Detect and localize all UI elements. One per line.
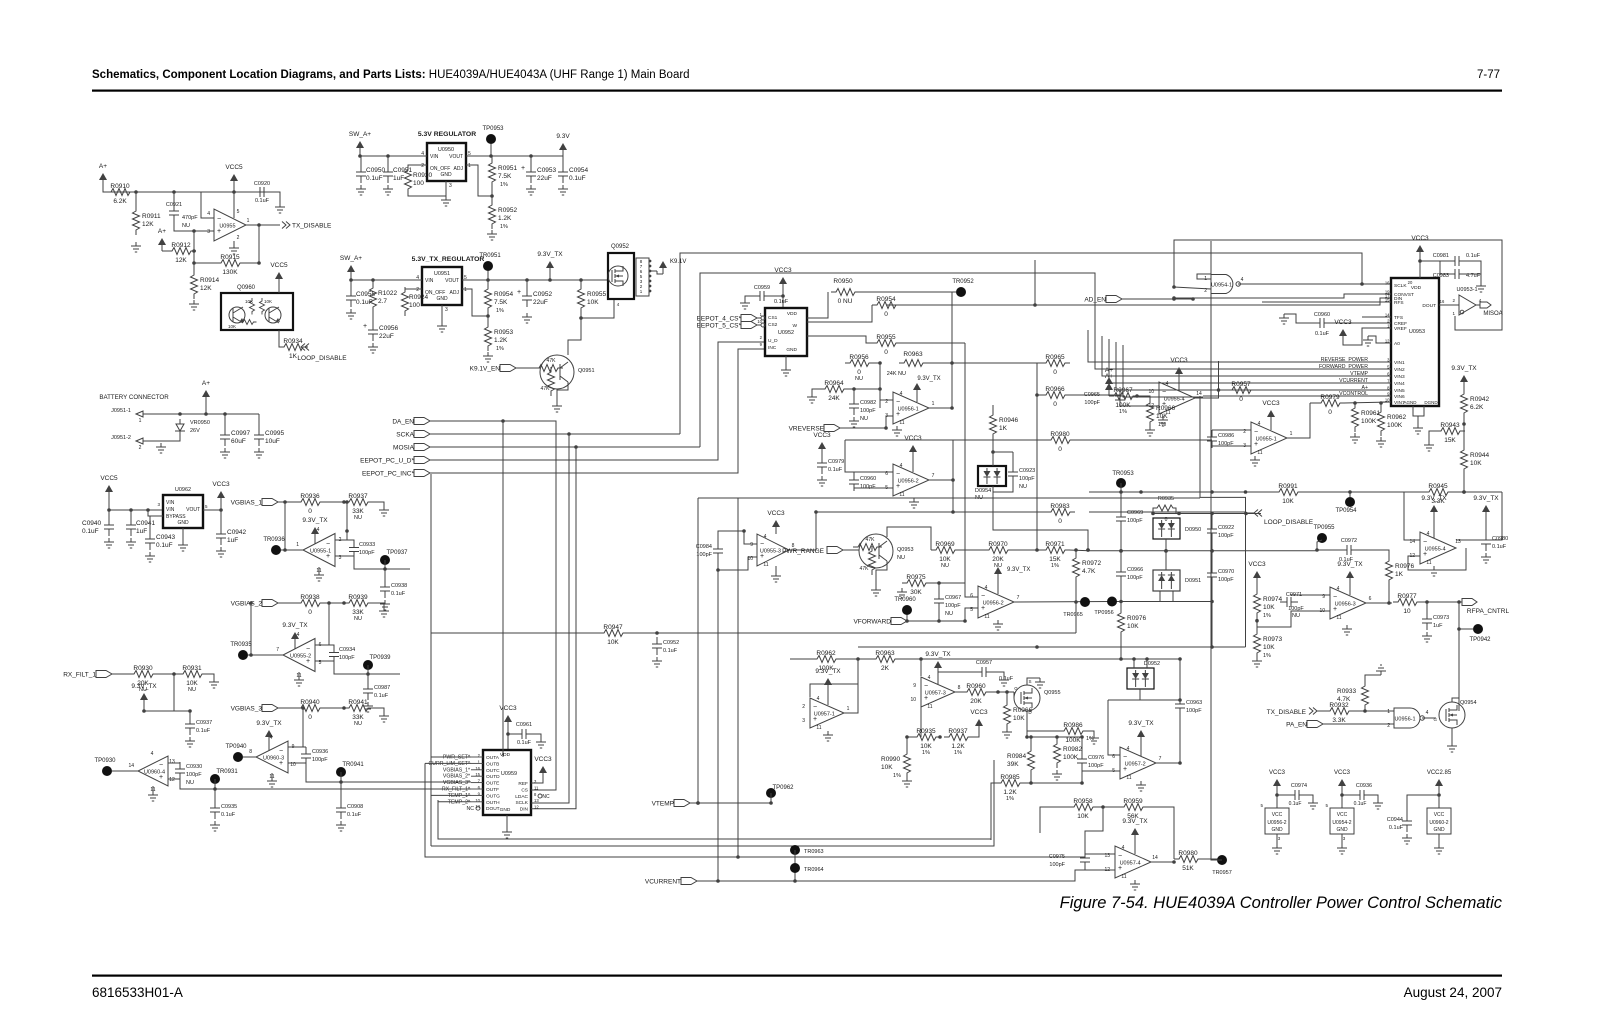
svg-text:4: 4 bbox=[151, 751, 154, 757]
wire bbox=[1089, 511, 1246, 513]
svg-text:5.3V REGULATOR: 5.3V REGULATOR bbox=[418, 131, 476, 138]
svg-text:TP0940: TP0940 bbox=[225, 744, 247, 750]
svg-text:7: 7 bbox=[1159, 756, 1162, 762]
wire r0912 bbox=[194, 250, 195, 252]
node bbox=[1363, 709, 1367, 713]
svg-text:R0937: R0937 bbox=[948, 728, 968, 735]
resistor R0975 bbox=[902, 580, 931, 587]
svg-text:1: 1 bbox=[932, 401, 935, 407]
wire plus in U0955-3 bbox=[718, 557, 757, 570]
svg-text:C0982: C0982 bbox=[860, 400, 876, 406]
power 9.3V_TX right bbox=[1463, 382, 1465, 388]
wire bracket 498 bbox=[698, 497, 1200, 499]
wire mesh r0963 to node bbox=[927, 362, 952, 364]
ground bbox=[1337, 844, 1347, 854]
svg-text:1%: 1% bbox=[954, 750, 962, 756]
svg-text:100K: 100K bbox=[1063, 754, 1079, 761]
svg-text:30K: 30K bbox=[910, 589, 922, 596]
wire bottom row 601 bbox=[1112, 601, 1212, 603]
wire cap vg2 bbox=[329, 644, 334, 647]
svg-text:C0979: C0979 bbox=[828, 459, 844, 465]
ground bbox=[745, 296, 753, 299]
wire tr0957 bbox=[1211, 241, 1222, 860]
svg-text:100pF: 100pF bbox=[1218, 577, 1234, 583]
ground bbox=[372, 603, 384, 607]
svg-text:DA_EN: DA_EN bbox=[392, 419, 414, 426]
ground bbox=[178, 541, 188, 551]
svg-text:TR0951: TR0951 bbox=[479, 253, 501, 259]
ground bbox=[1363, 336, 1373, 346]
svg-text:R0930: R0930 bbox=[133, 665, 153, 672]
capacitor C0986 bbox=[1207, 430, 1217, 448]
resistor R1022 bbox=[370, 283, 377, 312]
svg-text:U0959: U0959 bbox=[501, 771, 517, 777]
power 9.3V_TX u0955-4b bbox=[1433, 512, 1435, 518]
svg-text:SW_A+: SW_A+ bbox=[349, 131, 371, 138]
resistor R0945 bbox=[1424, 489, 1453, 496]
capacitor C0982 bbox=[849, 397, 859, 415]
svg-text:C0970: C0970 bbox=[1218, 569, 1234, 575]
svg-text:NU: NU bbox=[186, 780, 194, 786]
svg-text:VREF: VREF bbox=[1394, 326, 1407, 332]
wire bbox=[143, 440, 161, 442]
svg-text:NU: NU bbox=[354, 616, 362, 622]
resistor R0911 bbox=[133, 206, 140, 235]
wire vcurrent col bbox=[717, 570, 719, 881]
svg-text:9.3V_TX: 9.3V_TX bbox=[1421, 495, 1447, 502]
svg-text:10K: 10K bbox=[1282, 498, 1294, 505]
svg-text:12K: 12K bbox=[142, 221, 154, 228]
svg-text:R0958: R0958 bbox=[1073, 798, 1093, 805]
svg-text:R0982: R0982 bbox=[1063, 746, 1083, 753]
svg-text:100pF: 100pF bbox=[1019, 476, 1035, 482]
port VGBIAS_2 bbox=[262, 600, 278, 607]
svg-text:C0908: C0908 bbox=[347, 804, 363, 810]
bus MOSIA branch bbox=[531, 447, 576, 809]
svg-text:GND: GND bbox=[1271, 827, 1283, 833]
svg-text:12K: 12K bbox=[175, 257, 187, 264]
wire vtemp vertical bbox=[697, 498, 699, 803]
resistor R0946 bbox=[990, 410, 997, 439]
svg-text:VCC3: VCC3 bbox=[1248, 561, 1266, 568]
svg-text:1K: 1K bbox=[289, 353, 298, 360]
test point TP0942 bbox=[1473, 624, 1483, 634]
wire net MOSIA down bbox=[700, 273, 1095, 447]
svg-text:1.2K: 1.2K bbox=[1003, 789, 1017, 796]
svg-text:4: 4 bbox=[1166, 381, 1169, 387]
svg-text:VCC3: VCC3 bbox=[1334, 770, 1351, 776]
wire bbox=[1120, 389, 1159, 391]
svg-text:D0950: D0950 bbox=[1185, 527, 1201, 533]
port SCKA bbox=[414, 431, 430, 438]
ground bbox=[1481, 553, 1491, 563]
svg-text:11: 11 bbox=[927, 704, 932, 710]
svg-text:R0950: R0950 bbox=[833, 278, 853, 285]
resistor R0914 bbox=[191, 270, 198, 299]
capacitor C0951 bbox=[383, 165, 393, 183]
resistor R0957 bbox=[1227, 387, 1256, 394]
svg-text:1uF: 1uF bbox=[393, 175, 404, 182]
resistor R0937c bbox=[944, 734, 973, 741]
wire DIN row bbox=[886, 304, 1035, 306]
wire long 839 bbox=[438, 800, 991, 839]
wire bbox=[1069, 549, 1089, 552]
wire vforward bbox=[907, 620, 965, 622]
ground bbox=[999, 676, 1009, 686]
svg-text:0.1uF: 0.1uF bbox=[221, 812, 236, 818]
svg-text:TR0952: TR0952 bbox=[952, 279, 974, 285]
svg-text:RX_FILT_1: RX_FILT_1 bbox=[63, 672, 96, 679]
svg-text:VIN3: VIN3 bbox=[1394, 374, 1405, 380]
power 9.3V_TX c0980 bbox=[1485, 512, 1487, 518]
bus SCKA branch bbox=[531, 434, 569, 803]
power 9.3V_TX u0957-4 bbox=[1134, 835, 1136, 841]
svg-text:D0951: D0951 bbox=[1185, 578, 1201, 584]
svg-text:VCC3: VCC3 bbox=[499, 705, 517, 712]
wire u0955-1b bbox=[1212, 429, 1251, 431]
svg-text:C0936: C0936 bbox=[1356, 783, 1372, 789]
resistor R0964 bbox=[820, 386, 849, 393]
svg-text:C0943: C0943 bbox=[156, 534, 176, 541]
svg-text:11: 11 bbox=[899, 492, 904, 498]
svg-text:0: 0 bbox=[1058, 446, 1062, 453]
ground bbox=[483, 352, 493, 362]
buffer U0953-1 bbox=[1459, 295, 1476, 315]
svg-text:4.7K: 4.7K bbox=[1337, 696, 1351, 703]
svg-text:10K: 10K bbox=[607, 639, 619, 646]
svg-text:TP0942: TP0942 bbox=[1469, 637, 1491, 643]
wire bbox=[1037, 363, 1041, 395]
node bbox=[172, 672, 176, 676]
wire r0972 col bbox=[1075, 581, 1077, 633]
svg-text:C0974: C0974 bbox=[1291, 783, 1307, 789]
svg-text:0: 0 bbox=[308, 609, 312, 616]
capacitor C0963b bbox=[1175, 697, 1185, 715]
svg-text:ADJ: ADJ bbox=[454, 166, 464, 172]
capacitor C0952 bbox=[522, 289, 532, 307]
svg-text:10: 10 bbox=[1403, 608, 1411, 615]
wire vin7 stub bbox=[1381, 401, 1391, 403]
resistor R0979 bbox=[1316, 400, 1345, 407]
wire bbox=[360, 154, 427, 156]
svg-text:DIN: DIN bbox=[520, 807, 529, 813]
resistor R0955 bbox=[872, 340, 901, 347]
ground bbox=[104, 538, 114, 548]
wire bbox=[907, 736, 912, 738]
svg-text:R0910: R0910 bbox=[110, 183, 130, 190]
resistor R0937 bbox=[344, 499, 373, 506]
resistor R0944 bbox=[1461, 445, 1468, 474]
svg-text:R0951: R0951 bbox=[498, 165, 518, 172]
resistor R0941 bbox=[344, 705, 373, 712]
svg-text:A+: A+ bbox=[158, 228, 166, 235]
svg-text:OUTE: OUTE bbox=[486, 781, 499, 787]
svg-text:9.3V_TX: 9.3V_TX bbox=[1007, 567, 1030, 573]
ground bbox=[336, 821, 346, 831]
svg-text:−: − bbox=[813, 704, 817, 711]
svg-text:1.2K: 1.2K bbox=[951, 743, 965, 750]
ground bbox=[380, 600, 390, 610]
svg-text:U0956-1: U0956-1 bbox=[898, 407, 919, 413]
svg-text:−: − bbox=[217, 216, 221, 223]
svg-text:11: 11 bbox=[763, 562, 768, 568]
wire nand in2 bbox=[1174, 287, 1211, 289]
op-amp U0955-1 bbox=[303, 534, 335, 567]
power VCC2.85 U0960-2 bbox=[1438, 786, 1440, 792]
capacitor C0973 bbox=[1422, 612, 1432, 630]
resistor R0972 bbox=[1073, 553, 1080, 582]
svg-text:3: 3 bbox=[1343, 836, 1346, 841]
capacitor C0979 bbox=[817, 456, 827, 474]
wire nand out bbox=[1238, 283, 1391, 285]
capacitor C0960 bbox=[849, 473, 859, 491]
resistor R0910 bbox=[106, 189, 135, 196]
wire mesh left bbox=[807, 292, 828, 318]
svg-text:26V: 26V bbox=[190, 428, 200, 434]
wire out U0955-3 bbox=[789, 512, 816, 550]
resistor R0938 bbox=[296, 600, 325, 607]
capacitor C0995 bbox=[254, 428, 264, 446]
svg-text:11: 11 bbox=[899, 420, 904, 426]
wire u0956-1 out bbox=[929, 407, 952, 409]
svg-text:C0944: C0944 bbox=[1387, 817, 1403, 823]
wire out row vg2 bbox=[334, 664, 400, 675]
power VCC3 u0956-3 bbox=[1256, 578, 1258, 584]
ground bbox=[849, 417, 859, 427]
wire u0957-2 plus bbox=[1082, 771, 1120, 783]
ground u0955-4a bbox=[1158, 416, 1168, 426]
wire y512 to R0983 row bbox=[816, 511, 953, 513]
wire c0984 top bbox=[718, 531, 744, 542]
wire out u0956-2b bbox=[1014, 601, 1112, 604]
resistor R0962b bbox=[1378, 407, 1385, 436]
wire long 789 bbox=[215, 788, 471, 790]
wire vert 1035 bbox=[1034, 260, 1036, 305]
node bbox=[342, 500, 346, 504]
op-amp U0957-3 bbox=[921, 677, 955, 707]
power 9.3V_TX rx bbox=[143, 700, 145, 706]
svg-text:100K: 100K bbox=[1115, 402, 1131, 409]
svg-text:U0956-2: U0956-2 bbox=[898, 479, 919, 485]
ground bbox=[1413, 424, 1423, 434]
capacitor C0923 bbox=[1008, 465, 1018, 483]
port VFORWARD bbox=[891, 618, 907, 625]
wire u0957-4 out bbox=[1151, 861, 1174, 863]
wire r0979 bbox=[1310, 402, 1316, 404]
svg-text:10: 10 bbox=[910, 697, 916, 703]
svg-text:C0963: C0963 bbox=[1186, 700, 1202, 706]
wire r0963 node down bbox=[920, 706, 922, 708]
svg-text:100: 100 bbox=[409, 302, 420, 309]
svg-text:0: 0 bbox=[1053, 401, 1057, 408]
wire bbox=[1069, 394, 1120, 396]
svg-text:−: − bbox=[1254, 429, 1258, 436]
svg-text:NU: NU bbox=[182, 223, 190, 229]
port DA_EN bbox=[414, 418, 430, 425]
test point TR0931 bbox=[210, 774, 220, 784]
ground bbox=[812, 389, 820, 393]
svg-text:10K: 10K bbox=[587, 299, 599, 306]
wire bbox=[1012, 549, 1041, 551]
wire c0969 down bbox=[1120, 528, 1122, 566]
connector pins bbox=[636, 258, 649, 296]
wire bbox=[807, 305, 872, 322]
wire c0970 col bbox=[1211, 514, 1213, 523]
svg-text:−: − bbox=[760, 541, 764, 548]
wire vref bbox=[1343, 328, 1391, 345]
svg-text:Q0954: Q0954 bbox=[1460, 700, 1477, 706]
svg-text:C0922: C0922 bbox=[1218, 525, 1234, 531]
svg-text:4: 4 bbox=[1258, 421, 1261, 427]
wire clamp out bbox=[993, 492, 1088, 550]
wire minus col vg2 bbox=[315, 603, 329, 645]
ground u0956-1 bbox=[892, 426, 902, 436]
capacitor C0959 bbox=[753, 291, 771, 301]
svg-text:1%: 1% bbox=[496, 308, 504, 314]
svg-text:5: 5 bbox=[205, 504, 208, 509]
svg-text:0.1uF: 0.1uF bbox=[374, 693, 389, 699]
gate U0956-2 bbox=[1265, 808, 1289, 834]
wire U0954-2 bbox=[1341, 792, 1343, 808]
svg-text:1uF: 1uF bbox=[136, 528, 147, 535]
wire out row vg3 bbox=[306, 765, 341, 782]
wire bbox=[953, 439, 1046, 441]
wire rfs bbox=[1262, 301, 1391, 303]
ground bbox=[1434, 844, 1444, 854]
ground bbox=[383, 185, 393, 195]
svg-text:R0985: R0985 bbox=[1000, 774, 1020, 781]
power VCC3 U0955-3 bbox=[775, 527, 777, 533]
svg-text:16: 16 bbox=[1385, 281, 1390, 286]
svg-text:1%: 1% bbox=[1051, 563, 1059, 569]
svg-text:22uF: 22uF bbox=[379, 333, 394, 340]
svg-text:0.1uF: 0.1uF bbox=[196, 728, 211, 734]
resistor R0936 bbox=[296, 499, 325, 506]
svg-text:C0969: C0969 bbox=[1127, 510, 1143, 516]
svg-text:1%: 1% bbox=[1263, 613, 1271, 619]
ground bbox=[1308, 799, 1318, 809]
wire u0957-1 link bbox=[810, 659, 858, 697]
svg-text:GND: GND bbox=[1336, 827, 1348, 833]
svg-text:C0942: C0942 bbox=[227, 529, 247, 536]
regulator U0951 bbox=[422, 267, 462, 305]
port EEPOT_4_CS* bbox=[741, 315, 757, 322]
svg-text:R0944: R0944 bbox=[1470, 452, 1490, 459]
svg-text:R0942: R0942 bbox=[1470, 396, 1490, 403]
svg-text:DGND: DGND bbox=[1424, 400, 1438, 405]
wire u0956-2b minus bbox=[965, 583, 978, 597]
svg-text:8: 8 bbox=[534, 792, 537, 797]
svg-text:C0986: C0986 bbox=[1218, 433, 1234, 439]
ground bbox=[346, 309, 356, 319]
svg-text:R0954: R0954 bbox=[494, 291, 514, 298]
svg-text:R0962: R0962 bbox=[1387, 414, 1407, 421]
svg-text:6: 6 bbox=[1369, 596, 1372, 602]
wire vreverse bbox=[840, 427, 886, 429]
ground bbox=[131, 242, 141, 252]
svg-text:R0976: R0976 bbox=[1395, 563, 1415, 570]
wire vout bbox=[203, 509, 221, 511]
test point TR0941 bbox=[336, 767, 346, 777]
svg-text:U0955-2: U0955-2 bbox=[290, 654, 311, 660]
resistor R0990 bbox=[904, 749, 911, 778]
svg-text:A+: A+ bbox=[202, 380, 210, 387]
test point TP0953 bbox=[486, 134, 496, 144]
capacitor C0969 bbox=[1116, 510, 1126, 528]
resistor R0985 bbox=[996, 780, 1025, 787]
wire pwr row extension bbox=[1089, 550, 1246, 552]
svg-text:6.2K: 6.2K bbox=[113, 198, 127, 205]
ground bbox=[126, 538, 136, 548]
resistor R0967 bbox=[1109, 393, 1138, 400]
wire U0956-2 bbox=[1276, 792, 1278, 808]
svg-text:6816533H01-A: 6816533H01-A bbox=[92, 985, 183, 1000]
op-amp U0960-3 bbox=[256, 741, 288, 773]
svg-text:NC: NC bbox=[542, 794, 550, 800]
port TX_DISABLE in bbox=[1309, 708, 1317, 715]
svg-text:100pF: 100pF bbox=[860, 408, 876, 414]
wire c0960b bbox=[1331, 322, 1391, 324]
capacitor C0972 bbox=[1340, 545, 1358, 555]
svg-text:EEPOT_5_CS*: EEPOT_5_CS* bbox=[697, 323, 742, 330]
svg-text:C0936: C0936 bbox=[312, 749, 328, 755]
svg-text:C0953: C0953 bbox=[537, 167, 557, 174]
op-amp U0957-1 bbox=[810, 698, 844, 728]
svg-text:R0945: R0945 bbox=[1428, 483, 1448, 490]
svg-text:C0966: C0966 bbox=[1127, 567, 1143, 573]
svg-text:15K: 15K bbox=[1444, 437, 1456, 444]
svg-text:TP0930: TP0930 bbox=[94, 758, 116, 764]
wire 1317 row bbox=[1246, 550, 1317, 552]
op-amp U0955-3 bbox=[757, 534, 789, 566]
svg-text:VOUT: VOUT bbox=[445, 278, 459, 284]
svg-text:TR0936: TR0936 bbox=[263, 537, 285, 543]
svg-text:DOUT: DOUT bbox=[1422, 303, 1436, 309]
wire q0953 bbox=[843, 549, 859, 551]
svg-text:−: − bbox=[1333, 594, 1337, 601]
capacitor C0940 bbox=[104, 518, 114, 536]
svg-text:9: 9 bbox=[913, 683, 916, 689]
svg-text:R0934: R0934 bbox=[283, 338, 303, 345]
wire out u0956-3 bbox=[1366, 602, 1392, 604]
svg-text:NC: NC bbox=[467, 806, 475, 812]
wire bbox=[144, 674, 174, 711]
resistor R0943 bbox=[1436, 428, 1465, 435]
svg-text:0.1uF: 0.1uF bbox=[391, 591, 406, 597]
nand U0954-1 bbox=[1211, 275, 1233, 294]
svg-text:R0911: R0911 bbox=[142, 213, 161, 220]
wire bbox=[143, 413, 259, 415]
svg-text:47K: 47K bbox=[866, 537, 876, 543]
port VCURRENT bbox=[681, 878, 697, 885]
wire r0982 row bbox=[1027, 736, 1082, 738]
svg-text:100pF: 100pF bbox=[1127, 518, 1143, 524]
capacitor C0975 bbox=[1080, 851, 1090, 869]
wire VGBIAS_1 bbox=[278, 501, 296, 503]
capacitor C0987 bbox=[363, 682, 373, 700]
ground u0957-1 bbox=[823, 731, 833, 741]
svg-text:51K: 51K bbox=[1182, 865, 1194, 872]
wire bbox=[324, 501, 344, 503]
svg-text:1.2K: 1.2K bbox=[498, 215, 512, 222]
svg-text:R0959: R0959 bbox=[1123, 798, 1143, 805]
svg-text:+: + bbox=[363, 323, 367, 330]
wire c0957 bbox=[938, 672, 975, 674]
resistor R0966b bbox=[1004, 700, 1011, 729]
ground bbox=[1350, 433, 1360, 443]
svg-text:33K: 33K bbox=[352, 714, 364, 721]
svg-text:2.7: 2.7 bbox=[378, 298, 387, 305]
